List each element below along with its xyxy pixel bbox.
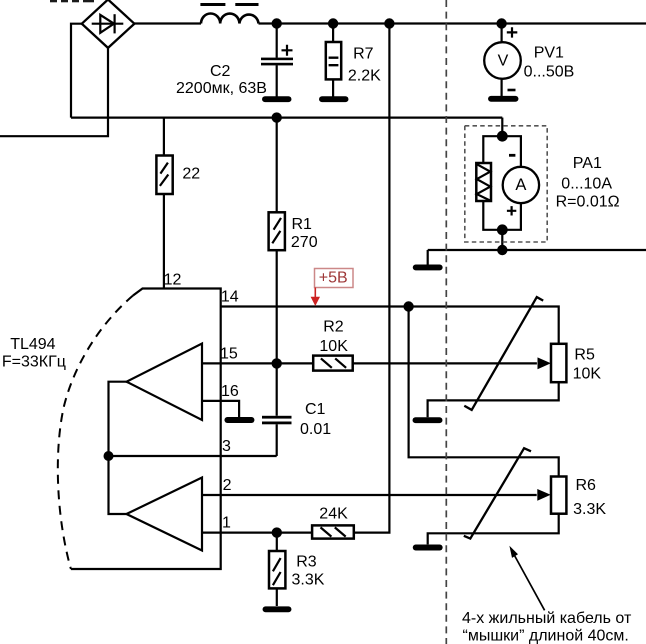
svg-text:10K: 10K: [573, 365, 602, 382]
svg-text:0...50В: 0...50В: [524, 64, 575, 81]
svg-text:R5: R5: [574, 346, 595, 363]
svg-text:24K: 24K: [319, 506, 348, 523]
svg-text:PA1: PA1: [573, 155, 602, 172]
svg-text:R3: R3: [296, 553, 317, 570]
svg-text:22: 22: [182, 165, 200, 182]
svg-text:R6: R6: [576, 477, 597, 494]
svg-text:15: 15: [220, 346, 238, 363]
svg-text:0.01: 0.01: [300, 421, 331, 438]
svg-text:R1: R1: [292, 216, 313, 233]
svg-text:+5В: +5В: [319, 270, 348, 287]
svg-text:F=33КГц: F=33КГц: [2, 353, 66, 370]
svg-text:C1: C1: [305, 401, 326, 418]
svg-text:3.3K: 3.3K: [573, 501, 606, 518]
svg-text:R2: R2: [323, 319, 344, 336]
svg-text:10K: 10K: [319, 338, 348, 355]
svg-text:R7: R7: [353, 46, 374, 63]
svg-text:2: 2: [223, 477, 232, 494]
svg-text:1: 1: [222, 515, 231, 532]
svg-text:16: 16: [221, 383, 239, 400]
svg-text:270: 270: [291, 234, 318, 251]
svg-text:4-х жильный кабель от: 4-х жильный кабель от: [462, 610, 632, 627]
svg-text:2200мк, 63В: 2200мк, 63В: [176, 80, 267, 97]
svg-text:“мышки” длиной 40см.: “мышки” длиной 40см.: [463, 628, 629, 644]
svg-text:A: A: [515, 176, 526, 194]
svg-text:C2: C2: [210, 63, 231, 80]
svg-text:TL494: TL494: [10, 336, 55, 353]
svg-text:3: 3: [222, 438, 231, 455]
svg-text:PV1: PV1: [534, 45, 564, 62]
svg-text:R=0.01Ω: R=0.01Ω: [556, 194, 620, 211]
svg-text:0...10A: 0...10A: [561, 176, 612, 193]
svg-text:14: 14: [221, 289, 239, 306]
svg-text:3.3K: 3.3K: [292, 571, 325, 588]
svg-text:V: V: [498, 53, 509, 70]
svg-text:12: 12: [164, 272, 182, 289]
svg-text:2.2K: 2.2K: [348, 68, 381, 85]
